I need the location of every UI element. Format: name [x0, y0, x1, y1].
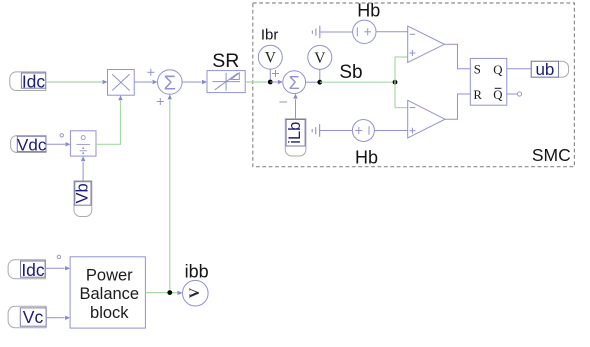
plus sign sum1 left input	[147, 69, 154, 76]
svg-text:Power: Power	[86, 266, 133, 284]
svg-text:Vdc: Vdc	[17, 136, 47, 155]
svg-text:V: V	[314, 50, 326, 67]
junction node Sb split	[393, 80, 398, 85]
svg-text:Sb: Sb	[339, 62, 362, 83]
junction node at sum2 input	[268, 80, 273, 85]
long green wire power balance to sum1	[169, 100, 171, 292]
S-R flip-flop	[470, 58, 507, 105]
wire Sb (green)	[320, 81, 395, 83]
svg-text:Q: Q	[493, 63, 503, 77]
outport ub	[531, 60, 568, 79]
svg-text:SMC: SMC	[532, 145, 571, 165]
plus sign sum2 left input	[272, 70, 279, 77]
wire power balance output (green)	[145, 292, 177, 294]
svg-text:Idc: Idc	[22, 71, 46, 91]
wire bottom comparator to R input	[445, 94, 470, 119]
inport Vdc	[11, 136, 47, 155]
wire Q to outport ub	[507, 68, 531, 70]
svg-text:block: block	[90, 304, 129, 322]
comparator bottom (relay)	[408, 100, 445, 138]
ground (top)	[312, 26, 319, 39]
wire source to bottom comparator plus input	[374, 130, 407, 132]
wire SR output into SMC (green)	[245, 81, 270, 83]
wire Vc to power balance	[46, 317, 65, 319]
sample-time marker circle	[60, 134, 63, 137]
inport Idc (bottom)	[8, 260, 45, 280]
junction node 2	[317, 80, 322, 85]
DC source Hb (top)	[353, 20, 376, 43]
svg-text:iLb: iLb	[286, 122, 304, 144]
sum1 circle	[158, 70, 183, 95]
svg-text:Σ: Σ	[164, 72, 176, 94]
wire multiplier to sum1	[134, 81, 152, 83]
inport Vb (rotated, below divider)	[73, 181, 92, 217]
junction node power balance	[167, 290, 172, 295]
comparator top (relay)	[408, 26, 445, 62]
svg-text:Σ: Σ	[289, 73, 300, 93]
svg-text:Vb: Vb	[73, 183, 91, 203]
voltmeter V1 (Ibr)	[258, 45, 282, 69]
wire Sb split vertical (green)	[394, 57, 396, 108]
stub V1 to junction	[269, 69, 271, 82]
DC source Hb (bottom)	[352, 120, 374, 142]
minus sign sum2 bottom input	[279, 101, 287, 103]
svg-text:Hb: Hb	[357, 1, 380, 21]
wire Vdc to divider	[46, 143, 65, 145]
wire to top comparator plus input (green)	[395, 56, 408, 58]
wire junction to sum2	[270, 81, 277, 83]
svg-text:SR: SR	[212, 50, 239, 72]
ground (bottom)	[312, 124, 319, 137]
stub V2 to junction2	[319, 69, 321, 82]
divider block	[70, 131, 96, 156]
wire sum2 to junction2	[306, 81, 320, 83]
wire to bottom comparator minus input (green)	[395, 107, 408, 109]
wire Idc2 to power balance	[45, 267, 64, 269]
wire sum1 to SR	[182, 81, 201, 83]
wire ground to source Hb top	[320, 31, 353, 33]
wire Idc to multiplier (green)	[46, 81, 102, 83]
svg-text:S: S	[474, 63, 481, 77]
inport iLb (rotated)	[285, 119, 306, 156]
svg-text:Vc: Vc	[23, 307, 44, 327]
svg-text:ub: ub	[535, 60, 554, 79]
svg-text:Idc: Idc	[21, 260, 45, 280]
inport Idc (top)	[10, 71, 46, 91]
wire ground to source Hb bottom	[320, 130, 353, 132]
svg-text:Q: Q	[493, 88, 503, 102]
svg-text:Ibr: Ibr	[261, 27, 279, 44]
wire iLb to sum2	[295, 99, 297, 119]
current meter ibb	[183, 280, 209, 306]
multiplier block (product)	[108, 70, 135, 96]
plus sign sum1 bottom input	[157, 98, 164, 105]
inport Vc	[8, 306, 46, 328]
wire Vb up to divider	[82, 162, 84, 181]
wire source to top comparator minus input	[376, 31, 408, 33]
sample-time marker circle 2	[57, 255, 60, 258]
svg-text:Hb: Hb	[355, 148, 378, 168]
wire top comparator to S input	[444, 44, 470, 68]
svg-text:Balance: Balance	[79, 285, 139, 303]
svg-text:V: V	[187, 287, 203, 298]
stub Qbar with open terminal	[507, 93, 517, 95]
SR rate-limiter block	[207, 71, 245, 93]
svg-text:V: V	[265, 50, 277, 67]
svg-text:R: R	[473, 88, 482, 102]
voltmeter V2	[308, 45, 332, 69]
Power Balance block	[70, 257, 145, 328]
sum2 circle	[283, 71, 306, 94]
svg-text:ibb: ibb	[185, 262, 209, 282]
SMC dashed boundary box	[253, 3, 575, 167]
wire divider output up to multiplier (green)	[96, 101, 121, 145]
